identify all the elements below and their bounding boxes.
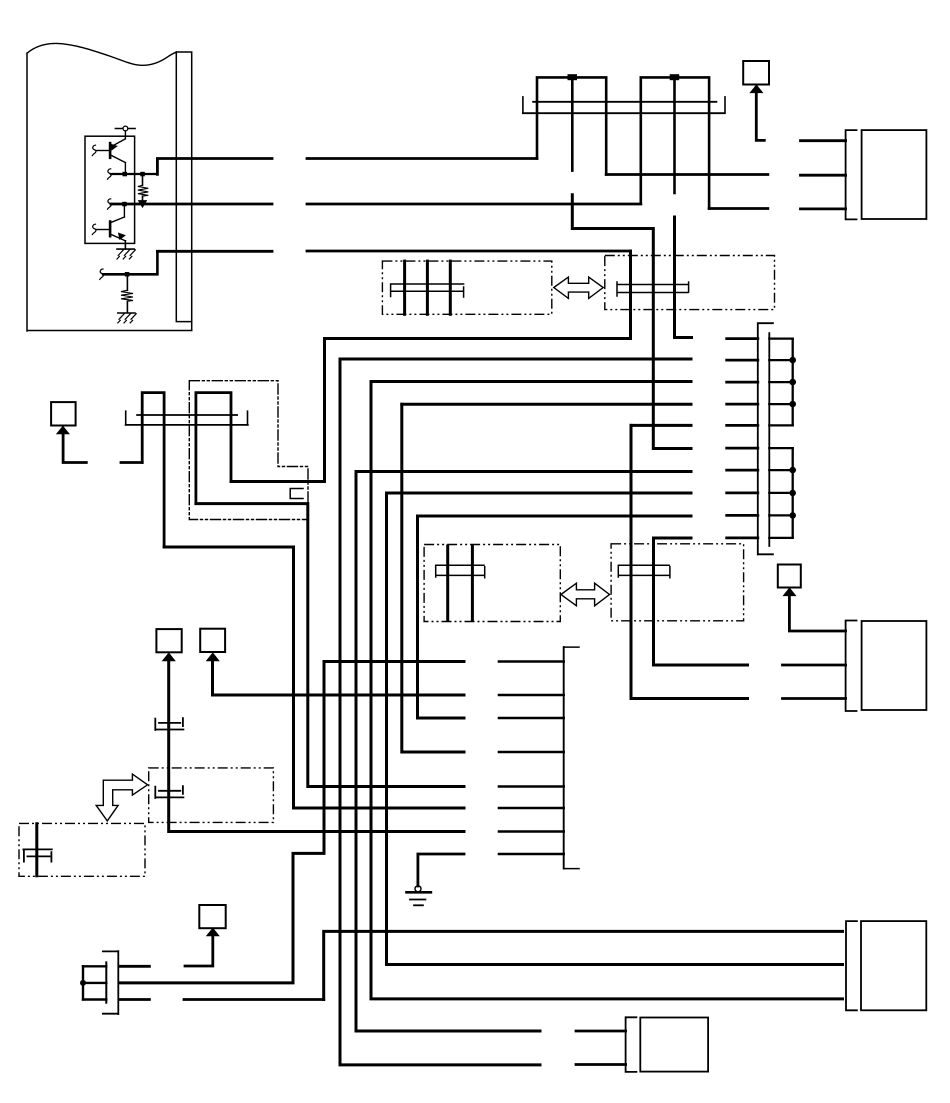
wire row8 CN2 — [387, 492, 692, 495]
earth ground bar1 — [407, 891, 431, 894]
wire v653 to CN2b stub2 — [654, 538, 748, 665]
wire row999 piece — [184, 998, 324, 1001]
wire pin674 lower to row338 — [675, 217, 692, 338]
junction dot CN2 y492.9 — [789, 490, 796, 497]
signal square S3 — [199, 905, 225, 928]
transistor Q1 base bar — [109, 143, 112, 158]
earth ground circle — [415, 886, 421, 892]
wire row9 CN2 — [418, 515, 692, 518]
arrowhead S5 — [750, 85, 762, 92]
ladder rung y718 — [499, 717, 564, 720]
ladder rung y854 — [499, 853, 564, 856]
resistor R1 bottom lead — [142, 196, 144, 204]
wire pin709 row208 — [709, 207, 768, 210]
cable box D2 (dash-dot) — [605, 256, 775, 310]
ladder bottom serif — [564, 868, 579, 870]
wire pin196 to ladder rung5 — [196, 504, 464, 787]
arrowhead S3 — [207, 928, 219, 935]
ladder rung y752 — [499, 751, 564, 754]
D1 pin 2 — [426, 261, 429, 314]
earth ground bar3 — [414, 904, 423, 906]
wire CN4 stub1 gap piece — [576, 1030, 626, 1033]
wire circle to Q1 — [124, 131, 126, 139]
CN2 right stub 1 — [769, 337, 792, 339]
cable box D6 (dash-dot) — [149, 768, 274, 823]
resistor R2 bottom lead — [126, 301, 128, 312]
wire S1 shaft to ladder rung7 — [169, 660, 464, 832]
inline connector symbol Y1 — [155, 718, 183, 730]
top connector bar right tick — [724, 97, 726, 113]
wire CN2 row10 gap piece — [727, 537, 758, 540]
wire ground branch — [418, 854, 464, 886]
wire row3 CN2 — [371, 380, 691, 383]
inline connector symbol Y3 — [23, 849, 51, 861]
wire S2 shaft to ladder rung2 — [213, 660, 465, 695]
ladder rung y695 — [499, 694, 564, 697]
ladder rung y831.5 — [499, 830, 564, 833]
wire v401 to ladder rung4 — [402, 404, 464, 752]
wire row251 to left-mid connector pin4 path — [231, 251, 631, 482]
arrowhead S4 — [57, 426, 69, 433]
connector CN2b bar — [846, 621, 857, 712]
Q2 emitter to ground — [124, 241, 126, 249]
wire v371 to CN3 stub3 — [371, 382, 843, 999]
arrowhead S2 — [207, 653, 219, 661]
earth ground bar2 — [410, 899, 425, 901]
wire CN4 stub2 gap piece — [576, 1063, 626, 1066]
CN2 right stub 6 — [769, 447, 792, 449]
wire pin606 row175 — [606, 173, 768, 176]
Q2 emitter arrow — [119, 233, 125, 239]
D4 pin 2 — [471, 546, 474, 620]
main board outline left+bottom — [27, 53, 192, 331]
wire CN1 stub2 — [801, 174, 846, 177]
D3 small key rect — [290, 489, 303, 499]
board-edge connector bar CN right line — [176, 52, 191, 330]
connector CN3 bar — [846, 921, 857, 1010]
junction dot CN2 y515.4 — [789, 512, 796, 519]
wire pin164 to ladder rung6 — [164, 547, 464, 808]
Q1 emitter arrow — [111, 144, 117, 150]
Q1 emitter diagonal — [110, 139, 125, 147]
junction arrow R1-row204 — [139, 201, 147, 208]
wire CN5 stub1 — [119, 965, 149, 968]
D4 connector bar — [436, 565, 485, 578]
ladder top serif — [564, 646, 579, 648]
CN5 left pin3 — [83, 998, 106, 1000]
node dot Q1-row174 — [123, 172, 128, 177]
CN2 bracket group2 — [792, 448, 794, 538]
top connector bridge 1 center pin upper — [571, 77, 574, 170]
ground G1 bar — [117, 248, 134, 250]
resistor R2 top lead — [126, 274, 128, 290]
wire v417 to ladder rung3 — [418, 516, 465, 718]
wire CN2 row1 gap piece — [727, 337, 758, 340]
connector CN2 bar inner — [768, 333, 770, 546]
transistor sub-circuit box — [85, 136, 135, 243]
ladder rung y661.5 — [499, 660, 564, 663]
hook input 1 — [92, 145, 96, 155]
double arrow A2 — [561, 583, 610, 606]
wire CN1 stub1 — [801, 139, 846, 142]
bridge 1 key dot — [568, 74, 578, 80]
resistor R2 zigzag — [121, 290, 133, 301]
transistor Q2 base bar — [109, 222, 112, 237]
junction dot CN2 y382.1 — [789, 379, 796, 386]
wire pin572 lower to row448 — [572, 195, 691, 449]
D4 pin 1 — [446, 546, 449, 620]
D7 thick pin — [35, 824, 38, 876]
wire CN2 row5 gap piece — [727, 424, 758, 427]
connector CN4 bar — [626, 1017, 637, 1072]
transistor Q2 base lead — [96, 229, 110, 231]
wire CN5 pin2 to ladder rung1 — [119, 662, 464, 983]
Q1 collector drop — [124, 163, 126, 174]
wire row 204 right segment — [307, 203, 641, 206]
wire S4 shaft+foot — [63, 433, 86, 462]
D5 connector bar — [618, 565, 670, 578]
node dot R1-row174 — [140, 172, 145, 177]
wire v631 to CN2b stub3 — [631, 425, 748, 698]
cable box D7 (dash-dot) — [19, 823, 145, 876]
CN-left bar left tick — [125, 411, 127, 425]
wire row7 CN2 — [356, 470, 691, 473]
wire v340 to CN4 stub2 — [340, 359, 540, 1065]
top connector bridge 1 outline — [537, 77, 606, 174]
CN2 right stub 2 — [769, 359, 792, 361]
Q1 collector diagonal — [110, 155, 125, 163]
wire v356 to CN4 stub1 — [356, 472, 540, 1032]
wire CN1 stub3 — [801, 207, 846, 210]
CN2 right stub 10 — [769, 537, 792, 539]
wire CN2 row4 gap piece — [727, 403, 758, 406]
wire row5 CN2 — [631, 424, 691, 427]
ladder rung y808 — [499, 807, 564, 810]
arrowhead S6 — [784, 588, 796, 595]
top connector bridge 2 outline — [641, 77, 709, 208]
node dot Q2-row204 — [122, 202, 127, 207]
resistor R1 zigzag — [138, 185, 148, 196]
wire v324 to CN3 stub1 — [324, 931, 843, 999]
signal square S5 — [743, 61, 769, 85]
CN2 right stub 4 — [769, 403, 792, 405]
wire CN2 row7 gap piece — [727, 469, 758, 472]
top connector bar left tick — [522, 97, 524, 113]
wire CN2b stub2 gap piece — [783, 664, 846, 667]
CN2 right stub 9 — [769, 514, 792, 516]
D1 pin 1 — [403, 261, 406, 314]
hook input 3 — [107, 199, 111, 209]
cable box D3 (dash-dot) — [189, 381, 308, 520]
CN2 right stub 8 — [769, 492, 792, 494]
hook input 5 — [100, 269, 104, 279]
ladder rung y786.5 — [499, 785, 564, 788]
unit box U1 — [862, 130, 927, 219]
CN-left bar right tick — [247, 411, 249, 425]
cable box D1 (dash-dot) — [382, 261, 551, 314]
top connector bar bottom line — [523, 112, 724, 114]
main board wavy top edge — [27, 43, 176, 65]
CN2 right stub 7 — [769, 469, 792, 471]
double arrow A1 — [554, 277, 603, 298]
ground G2 slashes — [118, 314, 136, 323]
unit box U2 — [862, 621, 927, 710]
hook input 2 — [107, 169, 111, 179]
power terminal line — [115, 128, 135, 130]
inline connector symbol Y2 — [155, 786, 183, 798]
power terminal open circle — [123, 126, 128, 131]
wire row 204 left — [111, 203, 272, 206]
wire CN2 row6 gap piece — [727, 447, 758, 450]
CN5 left pin2 — [83, 982, 106, 984]
Q2 collector diagonal — [110, 217, 124, 223]
CN-left bridge 1 — [142, 393, 164, 547]
wire S6 shaft to CN2b stub1 — [789, 595, 845, 631]
node row 174 wire — [111, 173, 157, 175]
wire S5 shaft+foot — [756, 92, 764, 141]
CN2 right stub 3 — [769, 381, 792, 383]
wire CN2 row2 gap piece — [727, 359, 758, 362]
D1 pin 3 — [449, 261, 452, 314]
hook input 4 — [92, 224, 96, 234]
CN2 bracket group1 — [792, 339, 794, 426]
node row 274 wire + jog up to row 251 — [103, 251, 157, 274]
junction dot CN5 — [80, 980, 86, 986]
transistor Q1 base lead — [96, 150, 110, 152]
cable box D4 (dash-dot) — [424, 545, 560, 622]
arrowhead S1 — [163, 653, 175, 661]
unit box U3 — [861, 921, 926, 1010]
signal square S6 — [778, 565, 801, 588]
unit box U4 — [640, 1018, 708, 1072]
cable box D5 (dash-dot) — [611, 544, 744, 621]
bent double arrow A3 — [96, 774, 147, 821]
wire CN2b stub3 gap piece — [783, 697, 846, 700]
junction dot CN2 y470.1 — [789, 467, 796, 474]
top connector bar top line — [533, 101, 716, 103]
connector CN5 bar — [103, 951, 118, 1014]
wire S3 shaft+foot — [185, 935, 213, 966]
junction dot CN2 y360.1 — [789, 357, 796, 364]
D1 connector bar — [391, 284, 464, 297]
ground G2 bar — [118, 312, 135, 314]
D2 connector bar — [617, 282, 689, 296]
wire row 251 segment — [157, 250, 630, 253]
node dot R2-row274 — [125, 272, 130, 277]
CN5 left pin1 — [83, 965, 106, 967]
wire CN-left pin1 foot — [121, 461, 142, 464]
resistor R1 top lead — [142, 174, 144, 185]
junction dot CN2 y404.1 — [789, 401, 796, 408]
CN-left bridge 2 — [196, 393, 231, 504]
Q2 collector drop — [123, 204, 125, 217]
signal square S4 — [51, 402, 76, 425]
wire v386 to CN3 stub2 — [387, 493, 843, 965]
CN-left bar top line — [137, 414, 237, 416]
top connector bridge 2 center pin upper — [673, 77, 676, 193]
signal square S2 — [200, 629, 225, 652]
wire row4 CN2 — [402, 403, 691, 406]
signal square S1 — [156, 629, 181, 652]
ground G1 slashes — [117, 250, 135, 259]
wire row 158 (board to top connector pin) — [157, 159, 537, 175]
wire CN5 stub3 — [119, 998, 149, 1001]
connector CN1 bar — [846, 130, 857, 219]
wire CN2 row3 gap piece — [727, 381, 758, 384]
wire CN2 row9 gap piece — [727, 514, 758, 517]
CN5 bracket — [82, 966, 84, 999]
board-edge connector bar CN left line — [176, 52, 191, 322]
CN-left bar bottom line — [126, 424, 248, 426]
wire row2 CN2 — [340, 358, 691, 361]
ladder bus bar — [563, 647, 565, 869]
wire CN2 row8 gap piece — [727, 491, 758, 494]
Q2 emitter diagonal — [110, 234, 125, 241]
connector CN5 inner line — [105, 962, 107, 1002]
connector CN2 bar outer — [758, 323, 773, 554]
wire row10 CN2 — [654, 537, 692, 540]
CN2 right stub 5 — [769, 424, 792, 426]
bridge 2 key dot — [670, 74, 680, 80]
